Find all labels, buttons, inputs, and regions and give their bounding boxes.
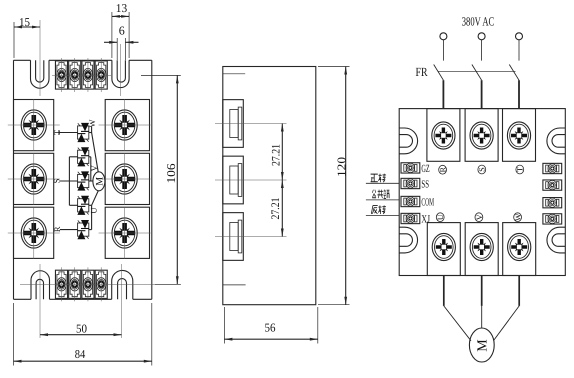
svg-text:56: 56 — [265, 320, 276, 334]
svg-text:380V AC: 380V AC — [462, 14, 495, 28]
svg-text:XJ: XJ — [421, 214, 430, 226]
svg-text:120: 120 — [334, 157, 348, 177]
svg-text:U: U — [88, 207, 98, 213]
svg-text:COM: COM — [421, 197, 434, 209]
svg-text:M: M — [476, 339, 491, 352]
svg-text:84: 84 — [75, 347, 86, 361]
svg-text:M: M — [94, 177, 105, 186]
svg-text:FR: FR — [416, 65, 429, 79]
svg-text:106: 106 — [164, 164, 178, 184]
svg-text:GZ: GZ — [421, 163, 429, 175]
svg-text:U: U — [436, 214, 445, 220]
svg-text:S: S — [52, 178, 62, 183]
svg-text:27.21: 27.21 — [270, 144, 282, 166]
svg-text:T: T — [52, 129, 62, 135]
svg-text:6: 6 — [119, 24, 125, 38]
svg-text:W: W — [87, 119, 97, 127]
svg-text:R: R — [439, 166, 448, 172]
svg-text:T: T — [516, 167, 525, 172]
svg-text:R: R — [52, 226, 62, 232]
svg-text:27.21: 27.21 — [270, 197, 282, 219]
svg-text:V: V — [475, 214, 484, 220]
svg-text:W: W — [514, 213, 523, 221]
svg-text:V: V — [89, 164, 99, 171]
svg-text:13: 13 — [116, 1, 127, 15]
svg-text:15: 15 — [19, 15, 30, 29]
svg-text:SS: SS — [421, 178, 429, 190]
svg-text:50: 50 — [76, 321, 87, 335]
svg-text:S: S — [478, 167, 487, 171]
